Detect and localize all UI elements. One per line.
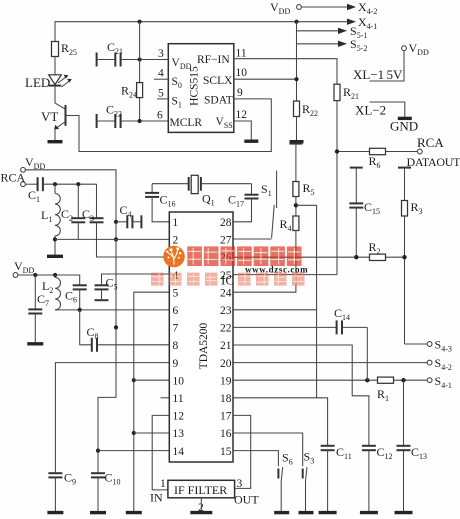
node XL-1 5V label (353, 67, 403, 82)
wire S5-2 branch (297, 43, 340, 45)
power VDD terminal lower-left (13, 259, 34, 277)
wire XL-2 to ground (370, 102, 405, 117)
wire R4 bottom to TDA5200 pin 24 (233, 231, 296, 293)
svg-text:5: 5 (158, 88, 164, 100)
wire C17 to TDA5200 pin 28 (233, 199, 252, 222)
pin number 28 (220, 217, 232, 229)
LED diode (25, 75, 72, 90)
node junction dot pin10 tap (132, 378, 136, 382)
wire S5-1 branch (297, 30, 340, 32)
wire R4R5 junction to feedback vertical (296, 204, 317, 206)
wire TDA5200 pin 13 line (134, 432, 170, 434)
svg-text:IC: IC (221, 273, 234, 288)
svg-text:20: 20 (220, 358, 232, 370)
inductor L1 (41, 184, 60, 236)
terminal RCA DATAOUT (407, 135, 460, 169)
svg-text:6: 6 (173, 305, 179, 317)
svg-text:18: 18 (220, 393, 232, 405)
svg-text:XL−2: XL−2 (355, 103, 386, 118)
wire R24 to pin6 junction (139, 98, 141, 121)
pin number 16 (220, 428, 232, 440)
node junction dot L1 top (53, 182, 57, 186)
wire TDA5200 pin 26 line with R2 (233, 256, 405, 258)
op-amp U1 HCS515 IC body (168, 44, 234, 133)
wire R21 down to pin 25 line (336, 101, 338, 275)
pin number 15 (220, 446, 232, 458)
pin number 11 (173, 393, 184, 405)
wire R25 to LED (54, 57, 56, 76)
wire C22 to HCS515 pin 6 (MCLR) (121, 120, 169, 122)
wire C14 down to R1 line (366, 327, 368, 380)
terminal S4-1 (427, 374, 452, 390)
pin number 6 (157, 110, 163, 122)
pin number 22 (220, 323, 232, 335)
wire VDD to XL-1 (370, 51, 405, 81)
node junction dot R5/R4 (294, 203, 298, 207)
svg-text:7: 7 (173, 323, 179, 335)
pin number 6 (173, 305, 179, 317)
node OUT label (234, 493, 259, 507)
ground C12 (360, 511, 378, 514)
wire TDA5200 pin 23 line (233, 309, 317, 311)
pin number 2 (173, 235, 179, 247)
svg-text:1: 1 (160, 478, 166, 490)
resistor R3 with top bar terminal (398, 168, 423, 344)
node junction dot pin3/C21/R24 (138, 57, 142, 61)
svg-text:15: 15 (220, 446, 232, 458)
svg-text:10: 10 (173, 375, 185, 387)
wire C13 from R1 line (403, 380, 405, 446)
svg-text:4: 4 (158, 68, 164, 80)
resistor R22 (294, 101, 319, 118)
pin number 4 (173, 270, 179, 282)
svg-text:TDA5200: TDA5200 (198, 322, 210, 369)
node junction dot pin13 tap (132, 431, 136, 435)
terminal X4-2 arrow (347, 0, 377, 16)
capacitor C4 with right bar terminal (116, 203, 141, 228)
terminal X4-1 arrow (347, 15, 377, 31)
svg-text:27: 27 (220, 235, 232, 247)
wire L1 bottom to ground (54, 236, 56, 255)
capacitor C17 (228, 184, 259, 209)
pin number 18 (220, 393, 232, 405)
wire IF FILTER pin 2 to ground (200, 498, 202, 511)
resistor R5 with top bar terminal (289, 144, 314, 197)
node junction dot C13/R1 line (401, 378, 405, 382)
svg-text:HCS515: HCS515 (189, 66, 201, 106)
pin number 2 IF FILTER (198, 502, 204, 514)
pin number 17 (220, 411, 232, 423)
wire HCS515 pin 11 (RF-IN) right then down through R21 (234, 59, 337, 84)
wire VT emitter to ground (54, 129, 56, 141)
capacitor C11 (321, 445, 352, 461)
svg-text:2: 2 (173, 235, 179, 247)
svg-text:SCLX: SCLX (203, 75, 233, 87)
wire TDA5200 pin 20 to S4-2 terminal (233, 362, 427, 364)
wire HCS515 pin 12 (VSS) to ground (234, 121, 252, 140)
svg-text:10: 10 (236, 67, 248, 79)
ground pins 5/10/13 vertical (126, 511, 142, 514)
capacitor C9 (48, 471, 76, 487)
pin number 3 (158, 48, 164, 60)
wire TDA5200 pin 18 to C11 (233, 398, 328, 446)
wire TDA5200 pin 2 line (55, 238, 169, 240)
wire R22 to ground (296, 117, 298, 141)
wire C10 to ground (97, 477, 99, 511)
wire feedback vertical x=316.6 down to pin18 line (316, 205, 318, 397)
pin number 7 (173, 323, 179, 335)
node XL-2 label (355, 103, 386, 118)
wire S3 to ground (305, 481, 307, 511)
pin number 14 (173, 446, 185, 458)
ground L1 (47, 255, 63, 258)
svg-text:RF−IN: RF−IN (197, 54, 230, 66)
switch S6 (278, 451, 292, 482)
svg-text:VT: VT (41, 109, 58, 124)
svg-text:1: 1 (173, 217, 179, 229)
wire TDA5200 pin 10 line (134, 379, 170, 381)
wire TDA5200 pin 11 stub (161, 397, 170, 399)
pin number 4 with stub S0 (154, 68, 168, 80)
wire top rail to pin3 junction (139, 22, 141, 83)
node junction dot C6/C8 (78, 308, 82, 312)
capacitor C22 (97, 103, 122, 129)
capacitor C5 with bottom bar terminal (95, 276, 118, 301)
pin number 9 (237, 87, 243, 99)
terminal S4-3 (427, 338, 452, 354)
ground VT emitter (48, 140, 63, 143)
capacitor C21 (97, 40, 123, 67)
watermark url (245, 265, 308, 275)
capacitor C7 (28, 275, 49, 342)
capacitor C13 (397, 445, 428, 461)
ground S3 (299, 511, 314, 514)
svg-text:16: 16 (220, 428, 232, 440)
node junction dot R3/pin26 (402, 255, 406, 259)
node junction dot pin6/C22/R24 (138, 119, 142, 123)
ground S6 (274, 511, 289, 514)
resistor R21 (334, 84, 359, 101)
crystal Q1 (152, 175, 251, 207)
wire C13 to ground (403, 450, 405, 511)
wire R5 to R4 (295, 197, 297, 217)
resistor R4 (280, 216, 299, 233)
node junction dot C7 tap (33, 273, 37, 277)
capacitor C15 with top bar terminal (349, 168, 380, 258)
power VDD terminal upper-left (21, 155, 46, 172)
svg-text:GND: GND (390, 119, 418, 134)
svg-text:11: 11 (236, 48, 247, 60)
capacitor C16 (145, 184, 175, 209)
wire TDA5200 pin 16 to switch S3 (233, 433, 303, 466)
wire C1 to C3 top corner (43, 183, 97, 185)
terminal S5-2 arrow (338, 37, 367, 53)
wire C8 to TDA5200 pin 8 (97, 344, 169, 346)
svg-text:12: 12 (236, 109, 248, 121)
svg-text:OUT: OUT (234, 493, 259, 507)
svg-text:19: 19 (220, 375, 232, 387)
node junction dot R6 branch (335, 149, 339, 153)
node junction dot L2 top (53, 273, 57, 277)
ground C10 (90, 511, 106, 514)
pin number 3 IF FILTER (237, 478, 243, 490)
svg-text:28: 28 (220, 217, 232, 229)
ground C11 (319, 511, 337, 514)
wire C12 to ground (368, 450, 370, 511)
resistor R25 (52, 41, 78, 57)
pin number 12 (236, 109, 248, 121)
svg-text:14: 14 (173, 446, 185, 458)
pin number 3 (173, 252, 179, 264)
svg-text:8: 8 (173, 340, 179, 352)
wire C16 to TDA5200 pin 1 (152, 197, 169, 222)
ground C9 (47, 511, 63, 514)
wire R3 bottom to S4-3 terminal (405, 343, 428, 345)
wire top VDD rail y=21.7 from R25 to X4-1 arrow (55, 22, 348, 42)
ground GND under XL-2 (390, 118, 418, 133)
pin number 12 (173, 411, 185, 423)
wire S1 to TDA5200 pin 27 (233, 238, 272, 240)
svg-text:3: 3 (158, 48, 164, 60)
ground IF FILTER (190, 511, 212, 514)
svg-text:LED: LED (25, 75, 50, 90)
svg-text:RCA: RCA (417, 135, 444, 150)
pin number 1 IF FILTER (160, 478, 166, 490)
capacitor C12 (362, 445, 393, 461)
wire TDA5200 pin 25 line (233, 274, 337, 276)
wire C11 to ground (327, 450, 329, 511)
node junction dot pin2 tap (114, 237, 118, 241)
terminal RCA input (1, 171, 26, 187)
inductor L2 (42, 275, 60, 310)
terminal S5-1 arrow (338, 24, 367, 40)
capacitor C14 on pin 22 line (233, 306, 367, 334)
wire TDA5200 pin 21 to C12 (233, 345, 369, 446)
switch S3 (303, 450, 314, 482)
transistor VT (41, 105, 66, 130)
wire TDA5200 pin 9 to C9 (55, 363, 169, 474)
wire VDD to X4-2 arrow (301, 6, 348, 8)
resistor R1 (377, 377, 394, 403)
pin number 5 (173, 287, 179, 299)
svg-text:9: 9 (237, 87, 243, 99)
pin number 1 (173, 217, 179, 229)
capacitor C6 (65, 285, 87, 310)
power VDD terminal XL-1 (402, 41, 429, 57)
op-amp U2 TDA5200 IC body (169, 212, 233, 462)
node junction dot pin14/C10 (96, 449, 100, 453)
pin number 5 with stub S1 (157, 88, 168, 100)
pin number 23 (220, 305, 232, 317)
node junction dot pin7 tap (114, 325, 118, 329)
pin number 24 (220, 287, 232, 299)
svg-text:DATAOUT: DATAOUT (407, 155, 460, 169)
pin number 27 (220, 235, 232, 247)
wire TDA5200 pin 6 line (55, 309, 169, 311)
resistor R2 (369, 240, 386, 261)
node junction dot top rail / R24 branch (138, 20, 142, 24)
node junction dot top rail / S5 branch (294, 20, 298, 24)
wire TDA5200 pin 12 to IF FILTER pin 1 (152, 415, 169, 490)
pin number 21 (220, 340, 232, 352)
svg-text:9: 9 (173, 358, 179, 370)
svg-text:5: 5 (173, 287, 179, 299)
ground C7 (27, 342, 43, 345)
wire C9 to ground (54, 477, 56, 511)
wire TDA5200 pin 19 line to R1 (233, 379, 378, 381)
svg-text:SDAT: SDAT (204, 95, 233, 107)
capacitor C10 (91, 471, 121, 487)
wire VDD rail to main vertical feed x=116 (25, 170, 116, 473)
ground VSS (244, 139, 258, 142)
resistor R24 (121, 83, 143, 100)
svg-text:22: 22 (220, 323, 232, 335)
pin number 8 (173, 340, 179, 352)
pin number 11 (236, 48, 247, 60)
wire R1 to S4-1 terminal (394, 379, 428, 381)
pin number 9 (173, 358, 179, 370)
svg-text:6: 6 (157, 110, 163, 122)
node junction dot pin10/R22 (294, 77, 298, 81)
watermark title (187, 246, 301, 266)
capacitor C8 (80, 310, 99, 352)
pin number 10 (173, 375, 185, 387)
node IN label (150, 491, 163, 505)
pin number 10 (236, 67, 248, 79)
wire C5 top to TDA5200 pin 4 (102, 274, 170, 285)
watermark logo circle (163, 246, 185, 268)
wire VDD rail to C6 (18, 275, 80, 285)
wire C21 to HCS515 pin 3 (121, 59, 169, 61)
svg-text:17: 17 (220, 411, 232, 423)
capacitor C2 (61, 184, 85, 239)
svg-text:11: 11 (173, 393, 184, 405)
node junction dot C14/R1 line (365, 378, 369, 382)
svg-text:IN: IN (150, 491, 163, 505)
pin number 25 (220, 270, 232, 282)
ground C13 (395, 511, 413, 514)
wire S6 to ground (280, 481, 282, 511)
wire VT base to HCS515 pin 9 (SDAT) (66, 99, 272, 152)
svg-text:MCLR: MCLR (170, 117, 203, 129)
watermark slogan IC letters (221, 273, 234, 288)
wire S5 branch vertical x=296.5 down to R22 (296, 22, 298, 101)
node junction dot L1/pin2 line (53, 237, 57, 241)
resistor R6 (339, 148, 417, 170)
ground R22 (290, 140, 304, 143)
capacitor C3 (82, 184, 104, 223)
pin number 26 (220, 252, 232, 264)
wire C3 bottom to TDA5200 pin 3 (97, 222, 170, 257)
switch S1 (261, 171, 277, 239)
svg-text:24: 24 (220, 287, 232, 299)
IF FILTER box (168, 480, 235, 498)
node junction dot C15/pin26 (354, 255, 358, 259)
node junction dot C4 tap (114, 220, 118, 224)
svg-text:XL−1: XL−1 (353, 67, 384, 82)
pin number 20 (220, 358, 232, 370)
svg-text:5V: 5V (387, 67, 404, 82)
capacitor C1 (25, 177, 43, 204)
node junction dot C2 top (76, 182, 80, 186)
power VDD terminal top (270, 0, 301, 16)
wire HCS515 pin 10 (SCLX) to R22 top (234, 78, 297, 80)
svg-text:21: 21 (220, 340, 232, 352)
watermark slogan (151, 273, 305, 286)
wire TDA5200 pin 5 down the ground vertical x=133.8 (134, 292, 170, 511)
wire IF FILTER pin 3 to TDA5200 pin 17 (233, 415, 251, 488)
wire TDA5200 pin 15 to switch S6 (233, 451, 278, 467)
wire LED cathode to VT collector (55, 86, 66, 110)
pin number 13 (173, 428, 185, 440)
terminal S4-2 (427, 356, 452, 372)
svg-text:23: 23 (220, 305, 232, 317)
wire TDA5200 pin 14 line (98, 450, 169, 452)
pin number 19 (220, 375, 232, 387)
svg-text:12: 12 (173, 411, 185, 423)
svg-text:IF FILTER: IF FILTER (174, 483, 227, 497)
svg-text:13: 13 (173, 428, 185, 440)
